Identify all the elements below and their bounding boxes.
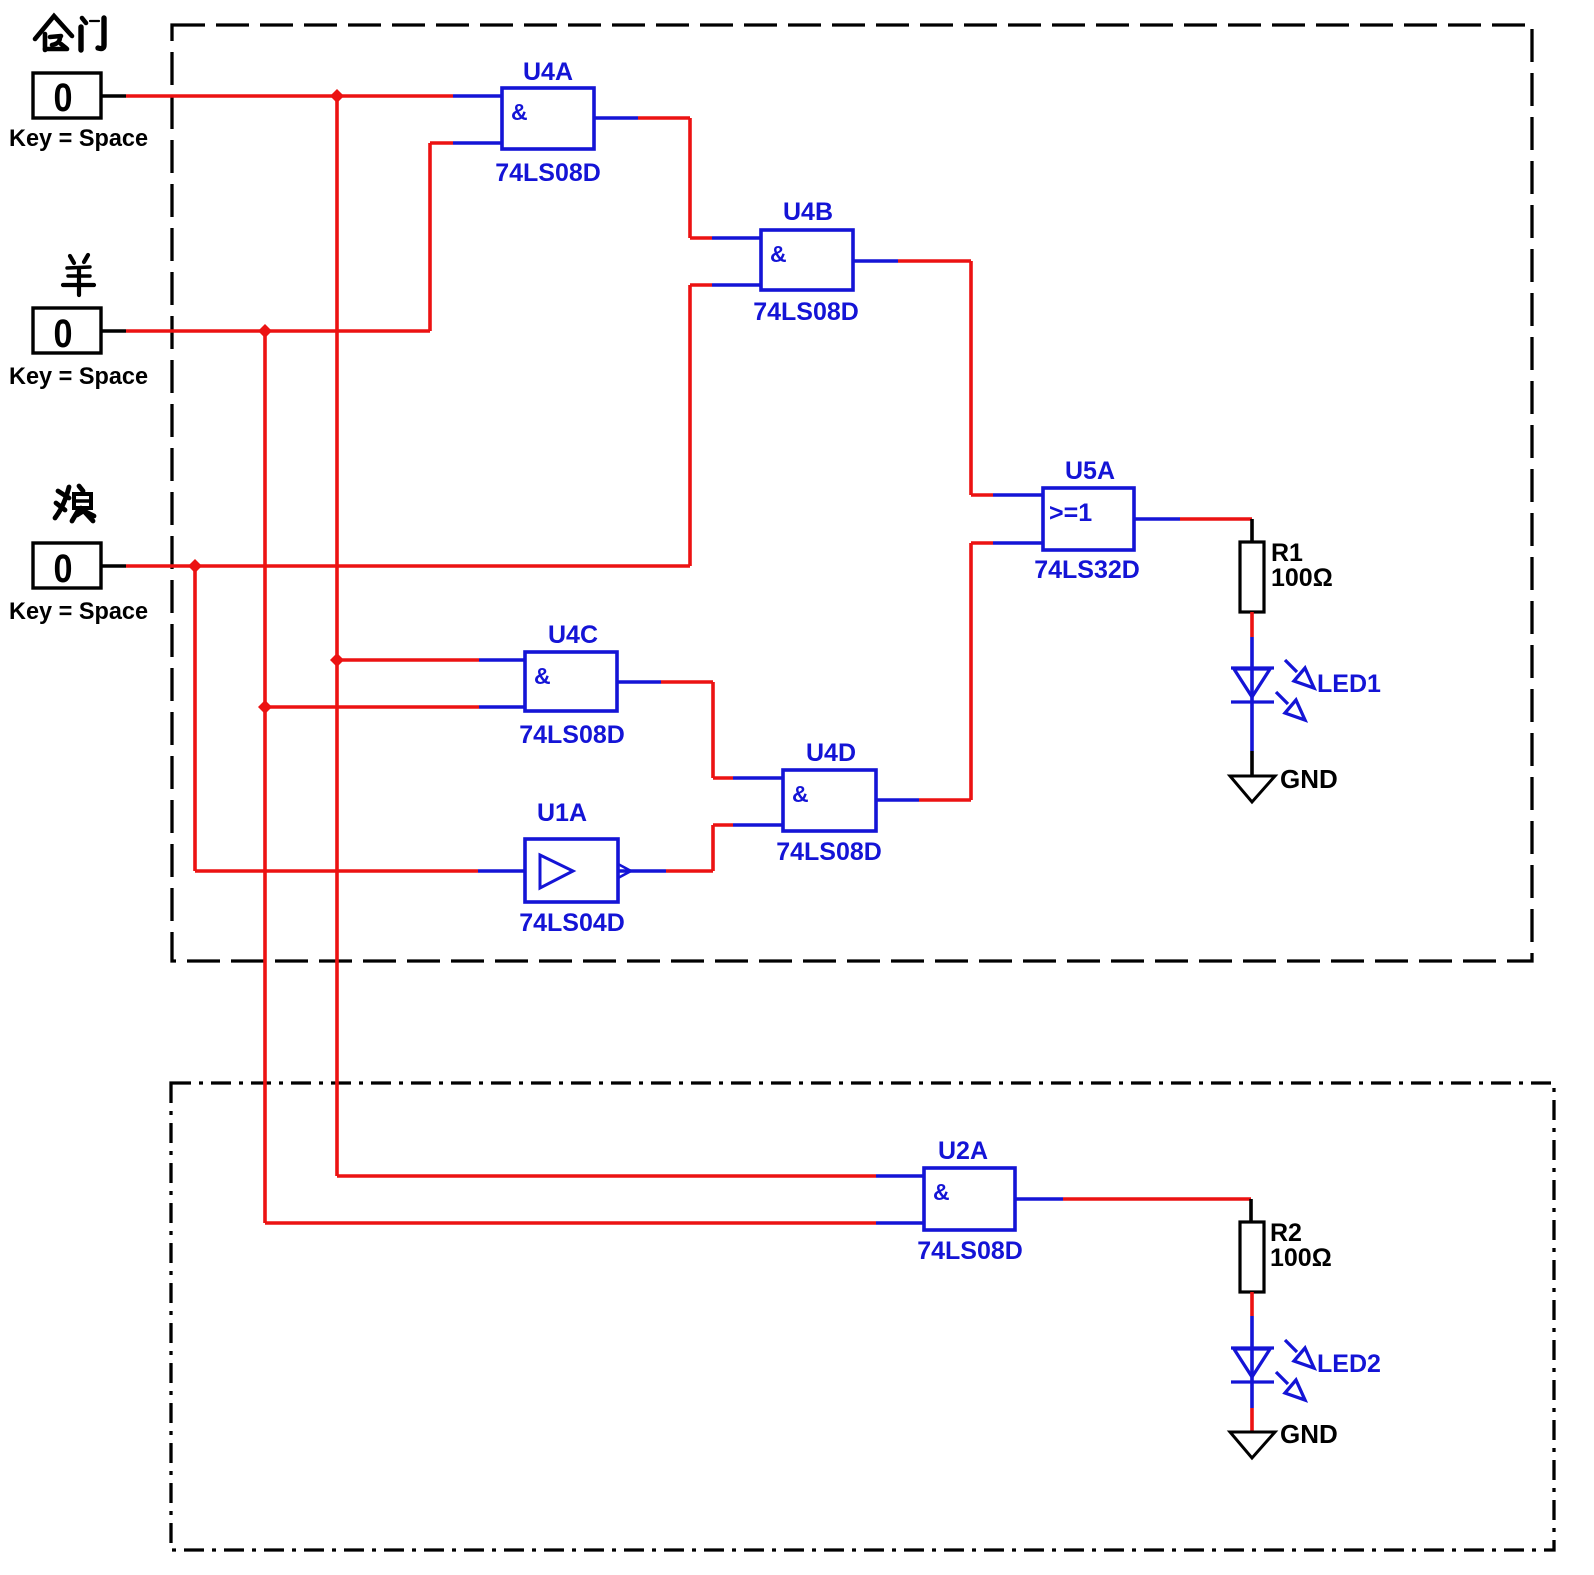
wire S3 drop to U1A input	[193, 566, 197, 871]
label 狼 (switch S3 name)	[55, 486, 94, 521]
svg-text:&: &	[933, 1179, 950, 1205]
wire U1A output to U4D input B	[618, 869, 666, 873]
svg-text:74LS08D: 74LS08D	[917, 1237, 1023, 1265]
svg-text:GND: GND	[1280, 764, 1338, 794]
and-gate U4D	[783, 770, 876, 831]
junction S1 branch	[330, 89, 344, 103]
svg-text:0: 0	[54, 76, 73, 120]
svg-text:74LS32D: 74LS32D	[1034, 556, 1140, 584]
wire S2 horizontal	[126, 329, 430, 333]
wire U5A output to R1	[1134, 517, 1180, 521]
wire S3 riser to U4B input B	[688, 285, 692, 566]
wire S2 stub	[101, 329, 126, 333]
wire S1 branch to U2A input A	[337, 1174, 876, 1178]
svg-text:U2A: U2A	[938, 1137, 988, 1165]
and-gate U4C	[525, 652, 617, 711]
svg-text:74LS04D: 74LS04D	[519, 909, 625, 937]
junction S2 to U4C	[258, 700, 272, 714]
and-gate U4A	[502, 88, 594, 149]
svg-text:R2: R2	[1270, 1219, 1302, 1247]
svg-text:&: &	[770, 241, 787, 267]
wire S1 stub	[101, 94, 126, 98]
switch S2 box	[33, 308, 101, 353]
wire S2 vertical branch	[263, 331, 267, 1223]
svg-text:U4B: U4B	[783, 198, 833, 226]
svg-text:0: 0	[54, 312, 73, 356]
wire U4B output to U5A input A	[853, 259, 898, 263]
wire U4D output to U5A input B	[876, 798, 919, 802]
svg-text:74LS08D: 74LS08D	[519, 721, 625, 749]
wire LED1 to ground	[1250, 751, 1254, 776]
svg-text:0: 0	[54, 547, 73, 591]
switch S1 box	[33, 73, 101, 118]
svg-text:U5A: U5A	[1065, 457, 1115, 485]
svg-text:74LS08D: 74LS08D	[495, 159, 601, 187]
svg-text:&: &	[511, 99, 528, 125]
wire S3 horizontal	[126, 564, 690, 568]
switch S3 box	[33, 543, 101, 588]
wire S2 branch to U2A input B	[265, 1221, 876, 1225]
wire S2 riser to U4A input B	[428, 143, 432, 331]
ground GND (top section)	[1230, 776, 1275, 802]
svg-text:100Ω: 100Ω	[1271, 564, 1333, 592]
wire U2A output to R2	[1015, 1197, 1063, 1201]
svg-text:U1A: U1A	[537, 799, 587, 827]
junction S3 branch	[188, 559, 202, 573]
svg-text:U4D: U4D	[806, 739, 856, 767]
wire U4A output to U4B input A	[594, 116, 638, 120]
label 羊 (switch S2 name)	[63, 255, 94, 295]
svg-text:100Ω: 100Ω	[1270, 1244, 1332, 1272]
wire S1 branch to U4C input A	[337, 658, 479, 662]
and-gate U4B	[761, 230, 853, 290]
svg-text:U4A: U4A	[523, 58, 573, 86]
svg-text:Key = Space: Key = Space	[9, 363, 148, 390]
svg-text:R1: R1	[1271, 539, 1303, 567]
svg-text:Key = Space: Key = Space	[9, 125, 148, 152]
svg-text:Key = Space: Key = Space	[9, 598, 148, 625]
resistor R2	[1240, 1222, 1264, 1292]
not-gate U1A	[525, 839, 631, 902]
wire U4C output to U4D input A	[617, 680, 661, 684]
wire S3 stub	[101, 564, 126, 568]
or-gate U5A	[1043, 488, 1134, 550]
wire S1 to U4A input A	[126, 94, 453, 98]
LED LED1	[1231, 660, 1314, 720]
svg-text:&: &	[792, 781, 809, 807]
svg-text:U4C: U4C	[548, 621, 598, 649]
wire LED2 to ground	[1250, 1408, 1254, 1432]
LED LED2	[1231, 1340, 1314, 1400]
and-gate U2A	[924, 1168, 1015, 1230]
junction S2 branch	[258, 324, 272, 338]
label 仓门 (switch S1 name)	[35, 16, 104, 50]
wire S1 vertical branch	[335, 96, 339, 1176]
svg-text:GND: GND	[1280, 1419, 1338, 1449]
svg-text:&: &	[534, 663, 551, 689]
wire S2 branch to U4C input B	[265, 705, 479, 709]
resistor R1	[1240, 542, 1264, 612]
dashed border of top sub-circuit region	[172, 25, 1532, 961]
junction S1 to U4C	[330, 653, 344, 667]
svg-text:74LS08D: 74LS08D	[753, 298, 859, 326]
ground GND (bottom section)	[1230, 1432, 1275, 1458]
svg-text:LED2: LED2	[1317, 1350, 1381, 1378]
svg-text:74LS08D: 74LS08D	[776, 838, 882, 866]
wire R1 to LED1	[1250, 612, 1254, 637]
svg-text:LED1: LED1	[1317, 670, 1381, 698]
svg-text:>=1: >=1	[1049, 499, 1092, 527]
dash-dot border of bottom sub-circuit region	[171, 1083, 1554, 1550]
wire R2 to LED2	[1250, 1292, 1254, 1316]
